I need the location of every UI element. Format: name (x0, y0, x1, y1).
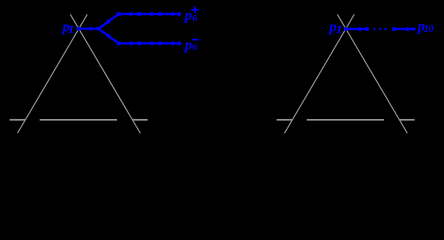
svg-text:6: 6 (192, 43, 197, 53)
svg-text:p: p (183, 8, 192, 24)
svg-text:6: 6 (192, 13, 197, 23)
svg-text:1: 1 (67, 23, 75, 36)
svg-text:10: 10 (424, 24, 434, 35)
svg-text:p: p (183, 37, 192, 53)
svg-text:1: 1 (335, 23, 343, 36)
